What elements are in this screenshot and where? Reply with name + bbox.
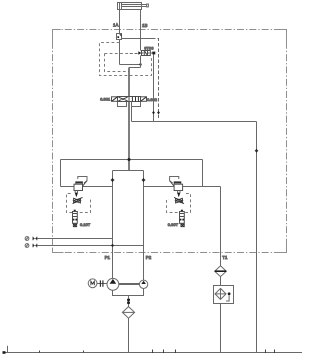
block left vertical P1 [112, 171, 114, 279]
cartridge 0.10T bottom [73, 224, 76, 227]
pilot valve 0.10 flag [78, 177, 87, 184]
pump shaft line [119, 284, 140, 285]
valve port bracket right [132, 102, 141, 107]
wire side branch y38.5 [122, 38, 153, 40]
pump 2 triangle [141, 281, 146, 284]
tank line [5, 352, 302, 354]
cylinder piston [120, 3, 122, 10]
pump 1 circle [107, 278, 119, 290]
port marker P1 [111, 178, 114, 182]
suction hose coupling [127, 298, 130, 301]
boundary frame (dash-dot) bottom [53, 252, 287, 254]
svg-text:1B: 1B [142, 23, 147, 28]
check neck right [178, 191, 180, 193]
return filter diamond [215, 288, 226, 299]
block right vertical P2 [143, 171, 145, 281]
boundary frame (dash-dot) right [286, 30, 288, 253]
tank left end symbol [3, 351, 6, 354]
motor M circle [88, 279, 97, 288]
cartridge 0.30T top [181, 210, 183, 211]
strainer diamond [122, 307, 134, 319]
dashed box left assembly [67, 194, 91, 213]
solenoid left [112, 97, 118, 102]
port marker on T line [255, 149, 258, 153]
svg-text:T1: T1 [222, 255, 228, 260]
test coupling 1 [33, 237, 35, 240]
cartridge 0.10T top [74, 210, 76, 211]
svg-text:P1: P1 [105, 255, 111, 260]
tank small ticks [40, 350, 275, 354]
dashed box right assembly [167, 194, 191, 213]
wire corner horizontal y67.5 [129, 67, 141, 69]
cylinder rod [122, 5, 147, 7]
check arrow right [177, 193, 180, 198]
wire gauge line 2 [37, 245, 144, 247]
svg-text:0.S02: 0.S02 [147, 98, 157, 102]
wire T down to tank [256, 122, 258, 353]
wire to strainer [128, 304, 130, 307]
wire merge horizontal y64.5 [120, 64, 141, 66]
manifold rail bottom right [144, 186, 203, 188]
gauge port circle 2 [25, 244, 29, 248]
manifold rail right [202, 160, 204, 187]
wire gauge line 1 [37, 238, 113, 240]
gauge port circle 1 [25, 237, 29, 241]
wire right line valve to corner [140, 56, 142, 68]
wire center line down to valve [128, 68, 130, 97]
pilot valve 0.30 collar [174, 182, 181, 184]
pilot valve 0.10 collar [76, 182, 83, 184]
manifold rail top [61, 159, 203, 161]
wire rail to T1 filter [203, 186, 221, 188]
pilot valve 0.30 flag [170, 177, 179, 184]
check valve diamond T1 [215, 266, 227, 277]
boundary frame corner legs [53, 30, 287, 253]
manifold rail left [60, 160, 62, 187]
manifold rail bottom left [61, 186, 113, 188]
pilot valve 0.30 body [174, 184, 183, 190]
junction dot [139, 63, 141, 65]
boundary frame (dash-dot) left [52, 30, 54, 253]
clogging indicator [228, 292, 231, 295]
port marker on drain line [157, 111, 160, 114]
block top edge [113, 170, 144, 172]
cartridge 0.10T body [73, 212, 78, 224]
pilot valve 0.10 body [74, 184, 83, 190]
svg-text:1A: 1A [113, 22, 118, 27]
valve 0S01 directional body [118, 97, 141, 102]
port marker on plug drain [152, 111, 155, 114]
wire strainer to tank [128, 318, 130, 352]
pump 2 circle [139, 280, 147, 288]
return filter box [214, 286, 234, 304]
boundary frame (dash-dot) top [53, 29, 287, 31]
check neck left [75, 191, 77, 193]
restrictor right [176, 198, 183, 203]
cartridge 0.30T body [180, 212, 185, 224]
svg-text:0.30T: 0.30T [168, 222, 179, 227]
svg-text:0.10T: 0.10T [80, 222, 91, 227]
svg-text:0.S01: 0.S01 [100, 98, 110, 102]
wire drain from plug down [153, 54, 155, 121]
wire cylinder left leg down [119, 10, 121, 65]
valve 6T06 right plug [150, 52, 152, 54]
cylinder rod end [147, 4, 149, 7]
wire cylinder right leg down [140, 10, 142, 51]
pump 1 triangle [110, 279, 117, 284]
restrictor arrow left [73, 197, 83, 204]
tank tick tall [7, 346, 9, 353]
junction dot gauge line 2 [111, 244, 113, 246]
cylinder 1 body [118, 3, 142, 10]
port marker P2 [142, 178, 145, 182]
svg-text:6T06: 6T06 [144, 45, 154, 50]
junction dot on rail [128, 158, 131, 161]
suction stub [128, 296, 130, 299]
restrictor left [74, 198, 81, 203]
dashed enclosure box outer [100, 43, 152, 76]
svg-text:P2: P2 [146, 255, 152, 260]
check arrow left [75, 193, 78, 198]
dashed enclosure box inner [105, 54, 130, 72]
wire dashed branch to drain [152, 39, 159, 120]
solenoid right [141, 97, 147, 102]
coupling [97, 283, 107, 285]
cartridge 0.30T bottom [181, 224, 184, 227]
wire center line below valve [128, 102, 130, 171]
dashed pilot line to 6T06 [130, 53, 138, 55]
valve 6T06 body [142, 51, 151, 56]
wire T1 through [220, 187, 222, 353]
valve port bracket left [118, 102, 127, 107]
test coupling 2 [33, 244, 35, 247]
restrictor arrow right [174, 197, 184, 204]
orifice component on left line [117, 34, 122, 40]
pilot arrow into valve 6T06 [138, 51, 141, 54]
suction manifold [113, 289, 144, 296]
wire T return from valve [132, 107, 257, 122]
